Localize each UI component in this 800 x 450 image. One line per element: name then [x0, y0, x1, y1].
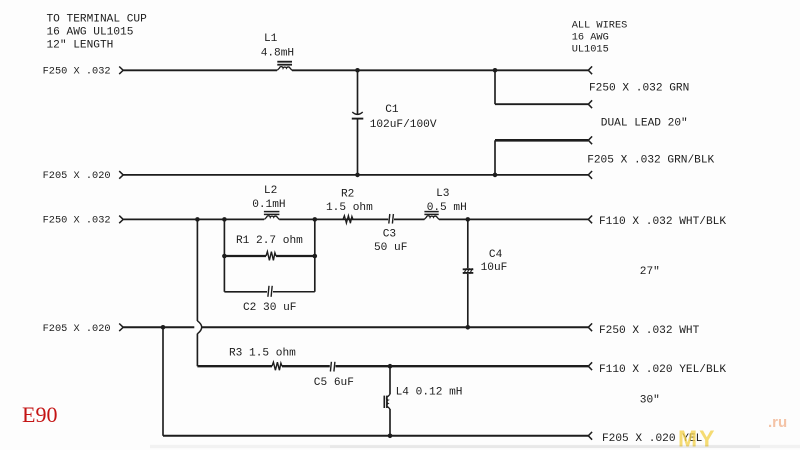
svg-text:F250 X .032 WHT: F250 X .032 WHT [599, 325, 700, 337]
wire row3 middle (L2 to C3) [279, 218, 388, 220]
svg-text:F205 X .020: F205 X .020 [43, 170, 111, 182]
capacitor C1 [352, 70, 437, 175]
svg-text:L4 0.12 mH: L4 0.12 mH [396, 387, 463, 399]
wire row1 right segment [292, 69, 588, 71]
connector arrow input row1 [119, 67, 123, 75]
svg-text:F250 X .032: F250 X .032 [43, 215, 111, 227]
inductor L1 [261, 33, 294, 70]
connector arrow output bottom row [588, 432, 592, 440]
svg-text:102uF/100V: 102uF/100V [370, 119, 437, 131]
node junction R1 row left [222, 254, 227, 259]
note: title block top-left [47, 13, 148, 51]
svg-text:50 uF: 50 uF [374, 242, 407, 254]
svg-text:.ru: .ru [768, 414, 787, 431]
node junction row3 left tap [195, 217, 200, 222]
wire row4 right of hop [202, 326, 589, 328]
wire R1-block right vertical [314, 219, 316, 291]
wire dual lead lower (from row2) [495, 140, 588, 175]
svg-text:L1: L1 [264, 33, 278, 45]
svg-text:30": 30" [640, 395, 660, 407]
svg-text:F110 X .020 YEL/BLK: F110 X .020 YEL/BLK [599, 364, 726, 376]
wire R3 row right [336, 365, 589, 367]
resistor R3 [197, 348, 329, 371]
node junction row1 at dual-lead split [493, 68, 498, 73]
svg-text:16 AWG UL1015: 16 AWG UL1015 [47, 26, 134, 38]
svg-text:1.5 ohm: 1.5 ohm [326, 202, 373, 214]
note: wire spec top-right [572, 19, 628, 55]
node junction row2 at dual-lead split [493, 173, 498, 178]
svg-text:L3: L3 [436, 188, 449, 200]
wire row3 (C3 to L3) [394, 218, 424, 220]
resistor R1 [224, 235, 314, 260]
inductor L2 [252, 185, 285, 219]
inductor L4 [384, 366, 462, 436]
capacitor C2 [224, 286, 314, 314]
wire dual lead upper (from row1) [495, 70, 588, 104]
svg-text:12" LENGTH: 12" LENGTH [47, 39, 114, 51]
svg-text:0.1mH: 0.1mH [252, 199, 285, 211]
connector arrow output row4 [588, 323, 592, 331]
svg-text:27": 27" [640, 266, 660, 278]
node junction row3 at C4 [466, 217, 471, 222]
svg-text:C4: C4 [489, 249, 503, 261]
connector arrow output row3 [588, 216, 592, 224]
node junction row1 at C1 [355, 68, 360, 73]
connector arrow output row1 [588, 66, 592, 74]
node junction R1 row right [313, 254, 318, 259]
svg-text:C1: C1 [385, 104, 399, 116]
node junction row3 R1-block left [222, 217, 227, 222]
inductor L3 [424, 188, 467, 219]
svg-text:TO TERMINAL CUP: TO TERMINAL CUP [47, 13, 148, 25]
wire row4 left [123, 326, 194, 328]
svg-text:C5 6uF: C5 6uF [314, 377, 354, 389]
wire row1 left segment [123, 69, 277, 71]
resistor R2 [326, 188, 373, 223]
svg-text:F205 X .020: F205 X .020 [43, 323, 111, 335]
svg-text:R2: R2 [341, 188, 354, 200]
wire row2 [123, 174, 588, 176]
wire row3 right [439, 218, 588, 220]
connector arrow dual lead upper [588, 100, 592, 108]
connector arrow input row2 [119, 171, 123, 179]
node junction row3 R1-block right [313, 217, 318, 222]
svg-text:16 AWG: 16 AWG [572, 31, 609, 43]
wire R1-block left vertical [223, 219, 225, 291]
note: faint scan band bottom [150, 445, 800, 448]
svg-text:R1 2.7 ohm: R1 2.7 ohm [236, 235, 303, 247]
connector arrow dual lead lower [588, 136, 592, 144]
svg-text:ALL WIRES: ALL WIRES [572, 19, 628, 31]
svg-text:F110 X .032 WHT/BLK: F110 X .032 WHT/BLK [599, 216, 726, 228]
connector arrow input row4 [119, 324, 123, 332]
svg-text:UL1015: UL1015 [572, 43, 609, 55]
connector arrow input row3 [119, 216, 123, 224]
svg-text:F205 X .032 GRN/BLK: F205 X .032 GRN/BLK [587, 154, 714, 166]
svg-text:DUAL LEAD 20": DUAL LEAD 20" [601, 117, 688, 129]
wire row3 left [123, 218, 264, 220]
svg-text:F250 X .032 GRN: F250 X .032 GRN [589, 82, 689, 94]
capacitor C3 [374, 214, 407, 254]
svg-text:R3 1.5 ohm: R3 1.5 ohm [229, 348, 296, 360]
node junction row4 at C4 [466, 325, 471, 330]
svg-text:10uF: 10uF [481, 262, 508, 274]
node junction row4 left [161, 325, 166, 330]
connector arrow output row2 [588, 171, 592, 179]
node junction row2 at C1 [355, 173, 360, 178]
capacitor C4 [463, 219, 508, 327]
connector arrow output R3 row [588, 362, 592, 370]
svg-text:C2 30 uF: C2 30 uF [243, 302, 296, 314]
svg-text:E90: E90 [22, 402, 57, 427]
svg-text:F250 X .032: F250 X .032 [43, 65, 111, 77]
svg-text:L2: L2 [264, 185, 277, 197]
svg-text:C3: C3 [383, 228, 396, 240]
node junction R3 row at L4 [388, 364, 393, 369]
svg-text:4.8mH: 4.8mH [261, 47, 294, 59]
capacitor C5 [314, 362, 354, 389]
wire left tap vertical with hop over row4 [197, 219, 201, 366]
wire bottom-left vertical and bottom row [163, 327, 588, 436]
node junction bottom row at L4 [388, 434, 393, 439]
